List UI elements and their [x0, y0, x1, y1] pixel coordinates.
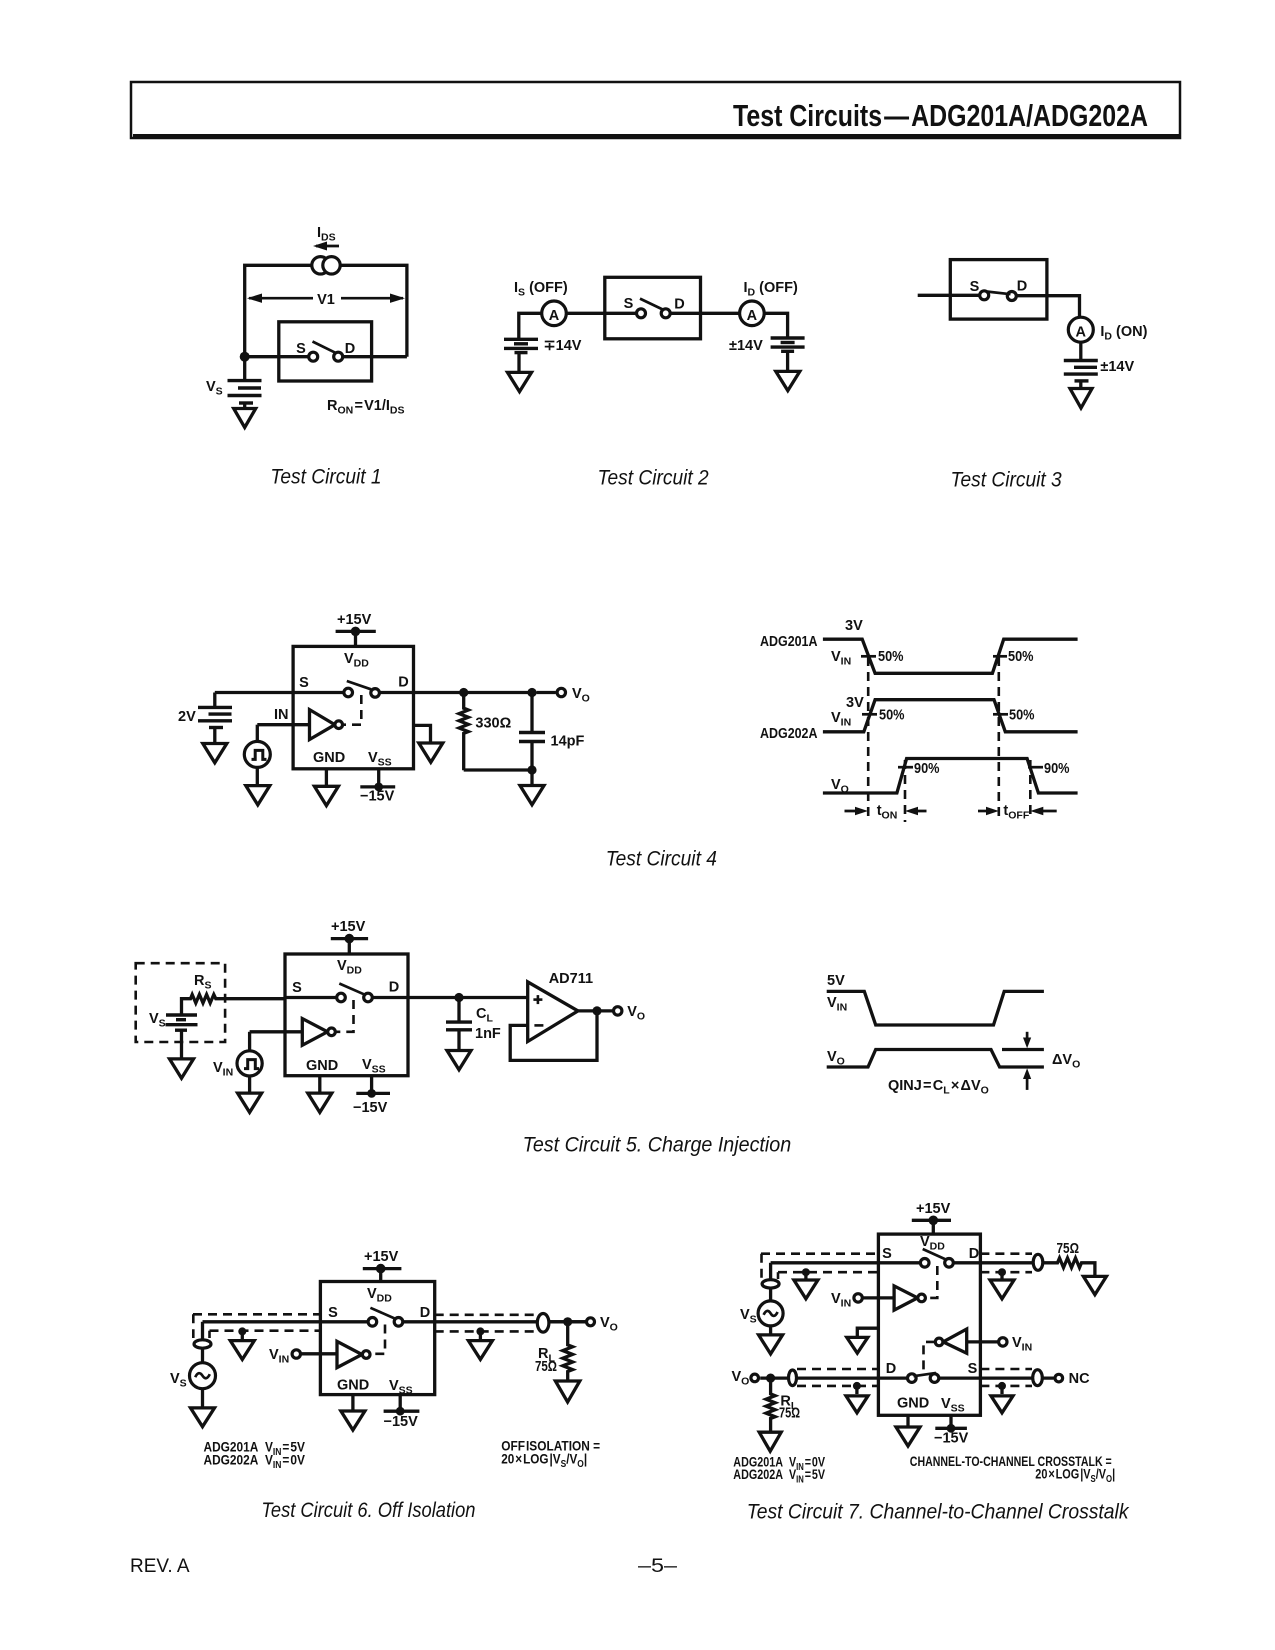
svg-text:ADG201A: ADG201A [760, 634, 818, 650]
svg-text:75Ω: 75Ω [535, 1359, 557, 1375]
svg-text:tOFF: tOFF [1003, 803, 1029, 822]
svg-text:ADG202A: ADG202A [760, 726, 818, 742]
svg-text:D: D [398, 675, 408, 691]
svg-text:GND: GND [897, 1396, 929, 1412]
svg-text:VIN: VIN [269, 1347, 289, 1366]
svg-text:2V: 2V [178, 709, 196, 725]
svg-text:VSS: VSS [941, 1396, 965, 1415]
svg-text:Test Circuit 5. Charge Inject: Test Circuit 5. Charge Injection [523, 1133, 792, 1156]
svg-text:S: S [970, 279, 980, 295]
svg-text:ADG202A VIN = 0V: ADG202A VIN = 0V [204, 1452, 306, 1471]
svg-text:+15V: +15V [337, 612, 372, 628]
svg-text:VO: VO [600, 1315, 618, 1334]
svg-text:S: S [968, 1361, 978, 1377]
svg-text:VIN: VIN [831, 1291, 851, 1310]
svg-text:75Ω: 75Ω [1057, 1241, 1080, 1257]
svg-text:RON = V1/IDS: RON = V1/IDS [327, 398, 405, 417]
svg-text:50%: 50% [878, 649, 904, 665]
svg-text:VSS: VSS [368, 750, 392, 769]
svg-text:D: D [420, 1305, 430, 1321]
svg-text:QINJ = CL × ΔVO: QINJ = CL × ΔVO [888, 1078, 989, 1097]
svg-text:ADG202A VIN = 5V: ADG202A VIN = 5V [733, 1467, 825, 1485]
svg-text:−15V: −15V [934, 1431, 969, 1447]
svg-text:A: A [747, 308, 758, 324]
svg-text:VIN: VIN [831, 649, 851, 668]
svg-text:ID (OFF): ID (OFF) [744, 280, 798, 299]
svg-text:3V: 3V [845, 618, 863, 634]
svg-text:REV. A: REV. A [130, 1556, 190, 1577]
svg-text:D: D [969, 1246, 979, 1262]
svg-text:S: S [624, 296, 634, 312]
svg-text:VS: VS [206, 379, 223, 398]
svg-text:90%: 90% [1044, 761, 1070, 777]
svg-text:75Ω: 75Ω [779, 1406, 800, 1422]
svg-text:∓14V: ∓14V [544, 338, 582, 354]
svg-text:Test Circuit 6. Off Isolation: Test Circuit 6. Off Isolation [261, 1499, 475, 1522]
svg-text:50%: 50% [879, 708, 905, 724]
svg-text:S: S [882, 1246, 892, 1262]
svg-text:V1: V1 [317, 292, 335, 308]
svg-text:Test Circuit 1: Test Circuit 1 [270, 465, 381, 488]
svg-text:VDD: VDD [344, 651, 369, 670]
svg-text:−15V: −15V [353, 1100, 388, 1116]
svg-text:IDS: IDS [317, 225, 336, 244]
svg-text:A: A [1076, 324, 1087, 340]
svg-text:VSS: VSS [362, 1057, 386, 1076]
svg-text:A: A [549, 308, 560, 324]
svg-text:VSS: VSS [389, 1378, 413, 1397]
svg-text:S: S [328, 1305, 338, 1321]
svg-text:IS (OFF): IS (OFF) [514, 280, 568, 299]
svg-text:–5–: –5– [638, 1556, 678, 1577]
svg-text:S: S [299, 675, 309, 691]
svg-text:+15V: +15V [331, 919, 366, 935]
svg-text:VO: VO [732, 1369, 750, 1388]
svg-text:ID (ON): ID (ON) [1100, 324, 1147, 343]
svg-text:D: D [674, 297, 684, 313]
svg-text:Test Circuits — ADG201A/ADG202: Test Circuits — ADG201A/ADG202A [733, 98, 1148, 133]
svg-text:VIN: VIN [213, 1060, 233, 1079]
svg-text:D: D [389, 980, 399, 996]
svg-text:VIN: VIN [1012, 1335, 1032, 1354]
svg-text:D: D [886, 1361, 896, 1377]
svg-text:−15V: −15V [384, 1414, 419, 1430]
svg-text:GND: GND [313, 750, 345, 766]
svg-text:20 × LOG |VS/VO|: 20 × LOG |VS/VO| [501, 1451, 587, 1470]
svg-text:VS: VS [740, 1307, 757, 1326]
svg-text:Test Circuit 4: Test Circuit 4 [606, 847, 717, 870]
svg-text:VDD: VDD [337, 958, 362, 977]
svg-text:1nF: 1nF [475, 1026, 501, 1042]
svg-text:VS: VS [149, 1011, 166, 1030]
svg-text:90%: 90% [914, 761, 940, 777]
svg-text:tON: tON [877, 803, 898, 822]
svg-text:Test Circuit 2: Test Circuit 2 [598, 467, 709, 490]
svg-text:RS: RS [194, 973, 212, 992]
svg-text:CL: CL [476, 1006, 493, 1025]
svg-text:VIN: VIN [827, 995, 847, 1014]
svg-text:VO: VO [572, 686, 590, 705]
svg-text:+15V: +15V [364, 1249, 399, 1265]
svg-text:VO: VO [627, 1004, 645, 1023]
svg-text:ΔVO: ΔVO [1052, 1052, 1080, 1071]
svg-text:AD711: AD711 [549, 971, 593, 987]
svg-text:NC: NC [1069, 1371, 1090, 1387]
svg-text:VS: VS [170, 1371, 187, 1390]
svg-text:3V: 3V [846, 695, 864, 711]
svg-text:GND: GND [306, 1058, 338, 1074]
svg-text:S: S [292, 980, 302, 996]
svg-text:±14V: ±14V [729, 338, 763, 354]
svg-text:20 × LOG |VS/VO|: 20 × LOG |VS/VO| [1035, 1466, 1115, 1484]
svg-text:D: D [345, 341, 355, 357]
svg-text:VIN: VIN [831, 710, 851, 729]
svg-text:330Ω: 330Ω [475, 716, 511, 732]
svg-text:14pF: 14pF [551, 734, 585, 750]
svg-text:50%: 50% [1009, 708, 1035, 724]
svg-text:50%: 50% [1008, 649, 1034, 665]
svg-text:IN: IN [274, 707, 289, 723]
svg-text:±14V: ±14V [1100, 359, 1134, 375]
svg-text:VDD: VDD [367, 1286, 392, 1305]
svg-text:GND: GND [337, 1378, 369, 1394]
svg-text:−15V: −15V [360, 789, 395, 805]
svg-text:VO: VO [827, 1049, 845, 1068]
svg-text:+15V: +15V [916, 1201, 951, 1217]
svg-text:D: D [1017, 279, 1027, 295]
svg-text:Test Circuit 7. Channel-to-Ch: Test Circuit 7. Channel-to-Channel Cross… [747, 1501, 1130, 1524]
svg-text:Test Circuit 3: Test Circuit 3 [951, 469, 1062, 492]
svg-text:S: S [296, 341, 306, 357]
svg-text:5V: 5V [827, 973, 845, 989]
